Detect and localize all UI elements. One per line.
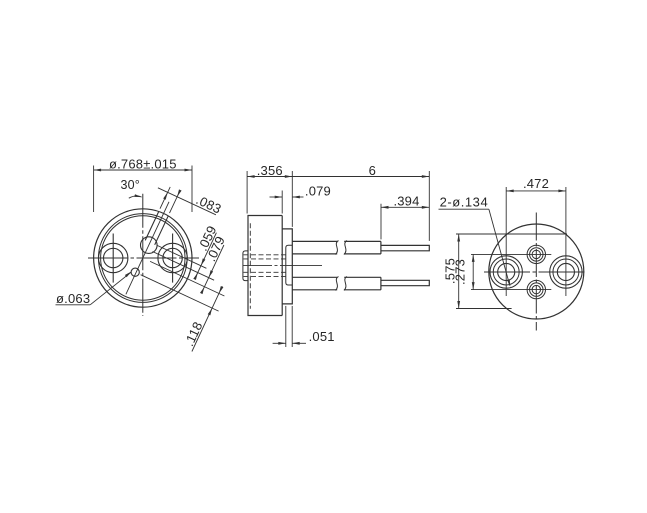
dim .079 left arrow segment (270, 196, 283, 198)
dim .273 top extension line (471, 253, 551, 255)
dim o.063 leader line with arrow (90, 272, 131, 305)
side view: hidden hole line top b (244, 258, 289, 260)
left view: right pin hole counterbore (158, 243, 187, 272)
left view: vertical centerline (142, 194, 144, 316)
dim .059 dimension line (195, 233, 216, 278)
dim 6 right extension (428, 171, 430, 241)
side view: hub boss rounded rect (286, 245, 293, 285)
rear view: left hole crosshair / .472 extension (505, 187, 507, 296)
dim .051 extension right (291, 306, 293, 347)
svg-text:.079: .079 (305, 183, 331, 198)
side view: bottom pin segment 1 (292, 276, 337, 278)
svg-text:6: 6 (369, 163, 376, 178)
svg-text:.273: .273 (452, 259, 467, 285)
left view: slot axis centerline at 30deg (126, 202, 169, 294)
svg-text:.394: .394 (393, 194, 419, 209)
left view: right hole vertical crosshair (172, 234, 174, 283)
side view: top pin segment 1 (292, 240, 337, 242)
side view: left contact boss (243, 251, 248, 281)
rear view: bottom small hole rings (527, 280, 545, 298)
left view: left pin hole (104, 248, 123, 267)
dim .083 extension line upper (160, 187, 170, 209)
svg-text:.472: .472 (523, 176, 549, 191)
dim extension from center (150, 261, 224, 296)
dim o.768 right extension line (191, 166, 193, 213)
side view: top pin wire end (381, 245, 429, 250)
dim .059/.079/.118 extension from index hole (141, 275, 219, 311)
dim .472 dimension line (506, 190, 566, 192)
rear view: body circle (489, 224, 584, 319)
left view: right pin hole (163, 248, 182, 267)
left view: slot end round hole (141, 237, 158, 254)
dim .118 dimension line (192, 286, 222, 351)
rear view: left hole outer ring (490, 256, 522, 288)
dim o.768 left extension line (93, 166, 95, 213)
svg-text:.356: .356 (257, 163, 283, 178)
rear view: right hole ø.134 (557, 263, 574, 280)
side view: hidden hole line bottom a (244, 271, 289, 273)
side view: horizontal centerline (243, 265, 322, 267)
rear view: vertical centerline (535, 213, 537, 331)
dim .273 bottom extension line (471, 289, 551, 291)
dim extension from slot cap center (157, 246, 206, 269)
dim .079 extension at body edge (281, 191, 283, 214)
dim .394 dimension line (381, 206, 429, 208)
side view: body outline (248, 216, 282, 316)
left view: left pin hole counterbore (99, 243, 128, 272)
left view: body outer circle ø.768 (94, 209, 192, 307)
rear view: right hole mid ring (553, 259, 579, 285)
rear view: left hole mid ring (493, 259, 519, 285)
side view: bottom pin segment 2 (344, 276, 381, 278)
dim .083 extension line lower (170, 191, 180, 213)
side view: hidden line bore depth (249, 223, 251, 308)
dim .079 dimension line (202, 245, 224, 292)
dim o.063 leader underline (56, 304, 91, 306)
side view: bottom pin wire end (381, 280, 429, 285)
dim .575 top extension line (456, 233, 567, 235)
svg-text:ø.768±.015: ø.768±.015 (109, 157, 177, 172)
dim 30deg arc with arrow (129, 196, 142, 198)
dim 2-o.134 leader line (489, 209, 510, 285)
left view: left hole vertical crosshair (112, 234, 114, 283)
svg-text:.051: .051 (309, 329, 335, 344)
side view: body right edge (281, 216, 283, 316)
dim .273 dimension line (472, 254, 474, 289)
left view: horizontal centerline (88, 257, 199, 259)
rear view: left hole ø.134 (498, 263, 515, 280)
svg-text:2-ø.134: 2-ø.134 (440, 195, 489, 210)
dim .394 extension (380, 204, 382, 240)
dim 6 dimension line (292, 176, 429, 178)
left view: index hole ø.063 (131, 268, 139, 276)
dim 2-o.134 underline (439, 208, 489, 210)
dim .575 dimension line (458, 234, 460, 309)
dim .356/6 shared extension at flange face (291, 171, 293, 227)
dim .079 right arrow segment (292, 196, 303, 198)
rear view: horizontal centerline (484, 271, 586, 273)
rear view: right hole crosshair / .472 extension (565, 187, 567, 296)
dim .356 dimension line (247, 176, 292, 178)
dim .575 bottom extension line (456, 308, 512, 310)
rear view: right hole outer ring (550, 256, 582, 288)
dim o.768 dimension line (94, 169, 192, 171)
left view: body inner circle (98, 214, 187, 303)
side view: flange outline (282, 229, 292, 304)
left view: body inner lip circle (101, 216, 185, 300)
dim .083 dimension line with arrows (158, 188, 216, 215)
dim .051 extension left (285, 306, 287, 347)
left view: slot edge lower (155, 216, 169, 245)
side view: hidden hole line bottom b (244, 275, 289, 277)
side view: top pin segment 2 (344, 240, 381, 242)
svg-text:30°: 30° (120, 178, 140, 192)
dim extension from slot flat (153, 252, 215, 281)
dim .051 right arrow segment (292, 342, 306, 344)
rear view: top small hole rings (527, 245, 545, 263)
dim .356 left extension (246, 171, 248, 214)
side view: hidden hole line top a (244, 254, 289, 256)
svg-text:ø.063: ø.063 (56, 291, 90, 306)
dim .051 left arrow segment (273, 342, 286, 344)
left view: slot edge upper (145, 211, 159, 240)
